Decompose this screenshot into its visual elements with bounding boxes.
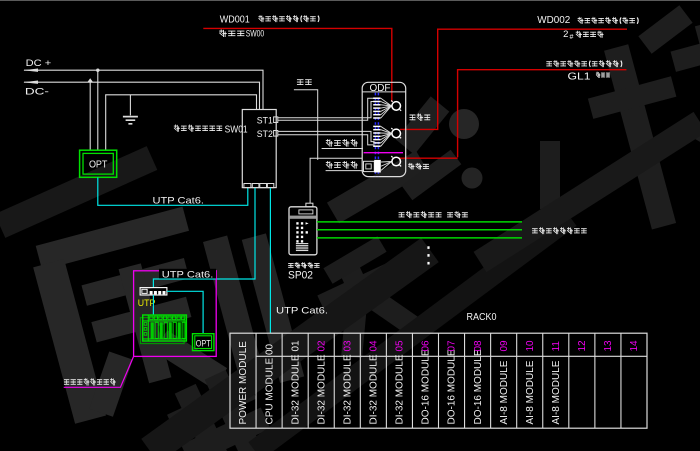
- converter OPT1: [80, 150, 117, 177]
- connector SP02 top: [306, 203, 313, 207]
- rack slot 4 label: [343, 340, 354, 425]
- wire jumper to SP02: [310, 158, 362, 203]
- svg-text:ST2: ST2: [257, 129, 273, 139]
- cabinet outline: [134, 271, 217, 357]
- ODF splice ticks group2: [373, 126, 380, 146]
- svg-text:DI-32 MODULE: DI-32 MODULE: [369, 354, 380, 424]
- wire UTP OPT1-SW01: [98, 178, 248, 206]
- label WD001: [220, 15, 250, 26]
- wire OPT feed 2: [97, 70, 99, 150]
- svg-text:11: 11: [551, 341, 562, 352]
- hub device: [140, 288, 167, 295]
- svg-text:SP02: SP02: [288, 270, 313, 282]
- screen top edge: [0, 0, 700, 2]
- connector circle 3: [391, 156, 401, 166]
- device SP02 body: [289, 207, 317, 255]
- svg-text:12: 12: [577, 340, 588, 352]
- svg-text:04: 04: [369, 340, 380, 352]
- svg-text:ST1: ST1: [257, 115, 273, 125]
- wire ST1 fibre a: [278, 102, 375, 118]
- svg-text:10: 10: [525, 340, 536, 352]
- rack slot 8 label: [447, 340, 458, 425]
- svg-text:DI-32 MODULE: DI-32 MODULE: [343, 354, 354, 424]
- junction arrow DC- tap: [87, 78, 93, 82]
- label UTP yellow: [138, 298, 156, 309]
- port ST1: [274, 117, 278, 123]
- ellipsis dots: [427, 246, 429, 264]
- wire hub to PLC: [152, 295, 154, 315]
- svg-text:2: 2: [563, 29, 568, 40]
- svg-text:DO-16 MODULE: DO-16 MODULE: [473, 349, 484, 424]
- label 尾纤: [297, 80, 311, 85]
- label 详见视频监控图纸: [532, 228, 586, 234]
- svg-text:13: 13: [603, 340, 614, 352]
- svg-text:DC +: DC +: [26, 58, 52, 69]
- label 控制室SW00: [220, 28, 265, 39]
- label 工业网络交换机: [174, 125, 222, 131]
- SP02 vent: [296, 244, 308, 251]
- ODF title line: [362, 91, 406, 93]
- svg-text:DO-16 MODULE: DO-16 MODULE: [447, 349, 458, 424]
- wire ground tap: [129, 95, 131, 116]
- wire ST1 fibre b: [278, 98, 375, 120]
- svg-text:14: 14: [629, 340, 640, 352]
- wire red net WD002: [400, 29, 627, 129]
- arrow DC+: [23, 69, 38, 72]
- svg-text:UTP: UTP: [138, 298, 156, 309]
- rack slot 15 label: [629, 340, 640, 352]
- wire video line 2: [317, 229, 522, 231]
- svg-text:AI-8 MODULE: AI-8 MODULE: [551, 360, 562, 424]
- wire video line 3: [317, 237, 522, 239]
- label 光纤跳线 lower: [326, 161, 357, 168]
- label 视频直控光缆(回光单模): [547, 61, 622, 67]
- label UTP Cat6. left: [153, 196, 205, 207]
- label 单模区: [409, 163, 429, 169]
- rack slot 11 label: [525, 340, 536, 425]
- svg-text:AI-8 MODULE: AI-8 MODULE: [499, 360, 510, 424]
- svg-text:GL1: GL1: [568, 71, 592, 82]
- label UTP Cat6. rack: [276, 306, 328, 317]
- wire video line 1: [317, 221, 522, 223]
- ODF splice strip blue dashed: [375, 93, 378, 176]
- svg-text:POWER MODULE: POWER MODULE: [238, 341, 249, 425]
- wire red net GL1: [399, 70, 627, 159]
- svg-text:09: 09: [499, 340, 510, 352]
- connector circle 2: [391, 128, 401, 138]
- switch SW01 body: [242, 110, 276, 188]
- splice block group3: [364, 160, 381, 173]
- label SW01: [225, 124, 248, 135]
- rack slot 1 label: [264, 343, 275, 424]
- PLC rack: [140, 315, 186, 344]
- wire DC+: [24, 70, 263, 109]
- svg-text:06: 06: [421, 340, 432, 352]
- svg-text:08: 08: [473, 340, 484, 352]
- rack slot 3 label: [316, 340, 327, 425]
- label ST2: [257, 129, 273, 139]
- svg-text:UTP Cat6.: UTP Cat6.: [162, 270, 214, 281]
- ODF zone divider magenta: [364, 152, 403, 154]
- label 2#控制子站: [563, 29, 603, 41]
- label OPT1: [89, 159, 108, 171]
- svg-text:SW00: SW00: [246, 28, 265, 39]
- rack slot 7 label: [421, 340, 432, 425]
- port LAN1: [244, 184, 251, 188]
- ODF splice ticks group1: [373, 98, 380, 118]
- wire UTP to cabinet: [153, 188, 255, 288]
- SP02 slot: [299, 210, 313, 214]
- svg-text:01: 01: [290, 340, 301, 352]
- rack slot 13 label: [577, 340, 588, 352]
- wire ST2 fibre b: [278, 135, 375, 145]
- label WD002: [537, 15, 570, 26]
- label 光纤跳线 upper: [326, 139, 357, 146]
- label 厂家成套控制设备: [64, 379, 115, 385]
- rack slot 2 label: [290, 340, 301, 425]
- svg-text:05: 05: [395, 340, 406, 352]
- wire OPT feed 3 / ground bus: [106, 95, 257, 150]
- rack slot 5 label: [369, 340, 380, 425]
- svg-text:DI-32 MODULE: DI-32 MODULE: [316, 354, 327, 424]
- svg-text:CPU MODULE 00: CPU MODULE 00: [264, 343, 275, 424]
- svg-text:07: 07: [447, 340, 458, 352]
- arrow DC-: [23, 81, 38, 84]
- label SP02: [288, 270, 313, 282]
- label GL1 控制室: [568, 71, 610, 82]
- label ODF: [370, 83, 391, 94]
- connector circle 1: [391, 101, 401, 111]
- svg-text:02: 02: [316, 340, 327, 352]
- rack table grid: [230, 333, 647, 428]
- svg-text:WD001: WD001: [220, 15, 250, 26]
- svg-text:#: #: [570, 34, 574, 41]
- ground: [123, 117, 138, 124]
- svg-text:RACK0: RACK0: [467, 311, 497, 323]
- leader cabinet: [64, 356, 134, 387]
- port ST2: [274, 131, 278, 137]
- svg-text:OPT: OPT: [89, 159, 108, 171]
- label DC-: [25, 87, 49, 98]
- ODF fan-out group1: [381, 98, 392, 118]
- wire UTP to rack: [269, 188, 271, 333]
- leader 尾纤: [294, 90, 318, 160]
- rack slot 9 label: [473, 340, 484, 425]
- label RACK0: [467, 311, 497, 323]
- svg-text:WD002: WD002: [537, 15, 570, 26]
- label UTP Cat6. cabinet: [159, 269, 216, 281]
- label 视频直控一区 摄像机: [399, 212, 468, 218]
- rack slot 12 label: [551, 341, 562, 425]
- converter OPT2: [193, 334, 214, 351]
- label 多模区: [410, 114, 430, 121]
- svg-text:DC-: DC-: [25, 87, 49, 98]
- rack slot 6 label: [395, 340, 406, 425]
- label 工业以太环网(光纤) right: [578, 17, 638, 23]
- label 视频发送机: [289, 263, 320, 268]
- ODF fan-out group2: [381, 126, 392, 146]
- leader 光纤跳线 upper: [322, 148, 363, 150]
- label 工业以太环网(光纤) left: [259, 16, 319, 22]
- svg-text:UTP Cat6.: UTP Cat6.: [276, 306, 328, 317]
- label OPT2: [196, 339, 211, 349]
- wire DC-: [24, 82, 260, 109]
- label DC +: [26, 58, 52, 69]
- rack slot 10 label: [499, 340, 510, 425]
- svg-text:OPT: OPT: [196, 339, 211, 349]
- junction dot DC+ tap: [96, 69, 99, 72]
- port LAN4: [267, 184, 273, 188]
- patch-panel ODF body: [362, 82, 406, 176]
- label ST1: [257, 115, 273, 125]
- svg-text:SW01: SW01: [225, 124, 248, 135]
- wire hub to OPT2: [167, 291, 203, 333]
- svg-text:DO-16 MODULE: DO-16 MODULE: [421, 349, 432, 424]
- port LAN2: [252, 184, 259, 188]
- SP02 indicators: [296, 222, 308, 242]
- wire ST2 fibre a: [278, 131, 375, 141]
- ODF fan-out group3: [381, 162, 392, 171]
- wire red net WD001: [203, 28, 391, 101]
- svg-text:DI-32 MODULE: DI-32 MODULE: [290, 354, 301, 424]
- rack slot 14 label: [603, 340, 614, 352]
- svg-text:AI-8 MODULE: AI-8 MODULE: [525, 360, 536, 424]
- leader 光纤跳线 lower: [326, 170, 363, 172]
- rack slot 0 label: [238, 341, 249, 425]
- wire OPT feed 1: [89, 82, 91, 150]
- svg-text:03: 03: [343, 340, 354, 352]
- SP02 band: [290, 216, 316, 219]
- port LAN3: [260, 184, 267, 188]
- svg-text:UTP Cat6.: UTP Cat6.: [153, 196, 205, 207]
- svg-text:DI-32 MODULE: DI-32 MODULE: [395, 354, 406, 424]
